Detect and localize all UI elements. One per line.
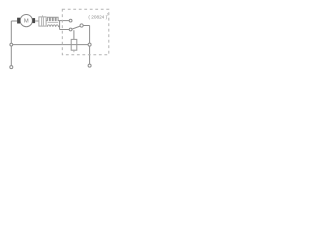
choke core line [48, 21, 59, 23]
wire lower line to switch lower contact [60, 29, 70, 31]
switch S1 lower contact [69, 28, 72, 31]
wire motor to suppression box [35, 20, 39, 22]
node junction right [88, 43, 91, 46]
svg-text:( 20824 ): ( 20824 ) [88, 15, 107, 20]
resistor R1 box [71, 39, 77, 50]
wire switch output horizontal [83, 25, 89, 27]
wire long bottom horizontal [13, 44, 89, 46]
switch S1 upper contact [69, 19, 72, 22]
motor brush right (dark block) [32, 18, 35, 23]
choke L2 bottom winding (arcs) [47, 25, 58, 27]
wire resistor top stub [73, 30, 75, 39]
switch S1 pivot contact [80, 24, 83, 27]
terminal right [88, 64, 91, 67]
wire top-left horizontal from left rail to motor brush [11, 20, 17, 22]
wire choke top to switch upper contact [59, 20, 70, 22]
motor M1 circle [20, 15, 32, 27]
dashed enclosure [62, 9, 109, 54]
wire resistor bottom stub [73, 50, 75, 52]
svg-text:M: M [24, 19, 29, 25]
capacitor C1 top stub [42, 15, 44, 17]
wire left vertical rail [10, 21, 12, 66]
wire choke bottom stub [59, 26, 60, 28]
svg-text:1: 1 [107, 13, 109, 17]
motor brush left (dark block) [17, 18, 20, 24]
choke L1 top winding (square bumps) [46, 17, 58, 20]
wire vertical connector at choke output [59, 21, 61, 30]
wire right vertical to bottom terminal [89, 46, 91, 64]
switch S1 arm [72, 26, 80, 29]
terminal left [10, 66, 13, 69]
capacitor block C1 (suppression box) [39, 17, 46, 26]
node junction left [10, 43, 13, 46]
wire switch output vertical down [89, 26, 91, 44]
capacitor C1 internal plates [42, 17, 44, 25]
